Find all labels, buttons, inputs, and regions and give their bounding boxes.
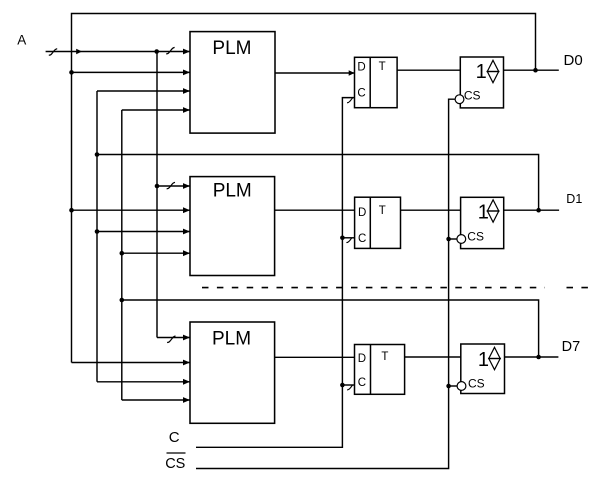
svg-text:PLM: PLM (213, 181, 252, 202)
wire U6 T out to buffer U9 (405, 356, 461, 358)
svg-text:CS: CS (464, 89, 481, 103)
wire PLM U1 in2 (72, 71, 191, 73)
arrowhead PLM U2 in2 (183, 207, 190, 213)
label CS overline (167, 452, 186, 454)
flip-flop U6 (D/C/T) (355, 345, 405, 395)
junction dot CS row3 (446, 384, 451, 389)
arrowhead PLM U2 in4 (183, 250, 190, 256)
junction dot left bus row1 (69, 70, 74, 75)
junction dot A row1 (154, 49, 159, 54)
wire buffer U8 out to D1 (504, 209, 559, 211)
buffer U8 CS bubble (457, 235, 466, 244)
arrowhead PLM U1 in3 (183, 88, 190, 94)
wire PLM U3 out to U6 D (275, 356, 355, 358)
svg-text:D7: D7 (562, 339, 581, 355)
wire A bus vertical (156, 52, 158, 338)
junction dot D7 output (536, 355, 541, 360)
wire buffer U7 out to D0 (504, 69, 559, 71)
svg-text:D: D (357, 62, 365, 74)
junction dot A row2 (155, 184, 160, 189)
svg-text:A: A (17, 33, 26, 48)
svg-text:T: T (379, 61, 386, 73)
junction dot D7 bus top (120, 298, 125, 303)
wire PLM U2 out to U5 D (275, 209, 355, 211)
junction dot D1 bus top (95, 152, 100, 157)
bus slash before PLM U3 (167, 336, 175, 343)
wire PLM U3 in3 (97, 381, 190, 383)
wire CS stub to U9 bubble (449, 385, 458, 387)
wire buffer U9 out to D7 (505, 356, 559, 358)
wire PLM U2 in2 (72, 209, 191, 211)
dynamic tick U5 C (346, 238, 352, 243)
svg-text:C: C (357, 87, 365, 99)
wire PLM U1 in3 (97, 90, 190, 92)
junction dot D0 output (533, 68, 538, 73)
wire A input (PLM U1 in1) (46, 51, 190, 53)
wire U4 T out to buffer U7 (397, 69, 460, 71)
PLM U1 (190, 32, 275, 134)
svg-text:T: T (381, 351, 388, 363)
svg-text:1: 1 (478, 202, 489, 224)
junction dot C row3 (340, 383, 345, 388)
wire D7 feedback (122, 300, 539, 357)
svg-text:D: D (358, 207, 366, 219)
wire C net (196, 98, 355, 448)
tri-state buffer U7 (460, 57, 503, 108)
arrowhead PLM U2 in3 (183, 229, 190, 235)
wire PLM U3 in4 (122, 399, 190, 401)
arrowhead PLM U3 in2 (183, 360, 190, 366)
wire PLM U2 in3 (97, 231, 190, 233)
svg-text:1: 1 (478, 349, 489, 371)
buffer U7 CS bubble (455, 95, 464, 104)
wire PLM U3 in2 (72, 362, 191, 364)
svg-text:C: C (169, 429, 180, 446)
arrowhead mid A input (76, 49, 82, 54)
svg-text:PLM: PLM (212, 329, 251, 350)
junction dot D7 bus row2 (120, 251, 125, 256)
svg-text:T: T (379, 205, 386, 217)
bus slash before PLM U1 (166, 47, 174, 54)
svg-text:CS: CS (468, 376, 485, 390)
PLM U2 (190, 177, 275, 276)
dashed separator line (202, 287, 591, 289)
svg-text:D0: D0 (564, 52, 583, 69)
wire D1 feedback (97, 155, 539, 211)
junction dot left bus row2 (69, 208, 74, 213)
bus slash before PLM U2 (167, 182, 175, 189)
svg-text:CS: CS (467, 230, 484, 244)
wire D1 bus vertical (96, 91, 98, 382)
tri-state buffer U8 (461, 197, 504, 248)
wire PLM U2 in4 (122, 252, 190, 254)
wire C stub to U6 (342, 384, 354, 386)
wire U5 T out to buffer U8 (401, 209, 461, 211)
svg-text:PLM: PLM (212, 38, 251, 59)
arrowhead PLM U3 in1 (183, 335, 190, 341)
wire PLM U2 in1 (157, 185, 190, 187)
wire D7 bus vertical (121, 110, 123, 400)
PLM U3 (190, 322, 275, 423)
svg-text:C: C (358, 233, 366, 245)
dynamic tick U4 C (347, 98, 353, 103)
wire C stub to U5 (342, 237, 354, 239)
buffer U9 CS bubble (457, 382, 466, 391)
buffer U8 tri-state diamond (487, 200, 498, 222)
bus slash on A input (49, 49, 57, 56)
dynamic tick U6 C (347, 385, 353, 390)
wire CS net (196, 99, 455, 468)
wire PLM U1 in4 (122, 109, 190, 111)
arrowhead U4 D input (349, 70, 355, 75)
arrowhead PLM U1 in1 (183, 49, 190, 55)
arrowhead PLM U3 in4 (183, 397, 190, 403)
flip-flop U4 (D/C/T) (355, 57, 398, 107)
buffer U9 tri-state diamond (489, 347, 500, 369)
junction dot D1 output (536, 208, 541, 213)
arrowhead PLM U1 in2 (183, 70, 190, 76)
wire PLM U1 out to U4 D (275, 72, 355, 74)
junction dot D1 bus row2 (95, 229, 100, 234)
arrowhead PLM U3 in3 (183, 379, 190, 385)
wire PLM U3 in1 (157, 337, 190, 339)
tri-state buffer U9 (461, 344, 505, 394)
svg-text:D1: D1 (566, 192, 582, 206)
buffer U7 tri-state diamond (487, 60, 498, 82)
arrowhead PLM U2 in1 (183, 183, 190, 189)
arrowhead PLM U1 in4 (183, 107, 190, 113)
svg-text:1: 1 (476, 61, 487, 83)
flip-flop U5 (D/C/T) (355, 197, 401, 248)
junction dot CS row2 (446, 237, 451, 242)
wire CS stub to U8 bubble (449, 238, 457, 240)
junction dot C row2 (340, 236, 345, 241)
svg-text:C: C (358, 377, 366, 389)
svg-text:D: D (358, 353, 366, 365)
wire D0 feedback (top rail + left bus) (72, 14, 536, 363)
svg-text:CS: CS (165, 456, 185, 472)
